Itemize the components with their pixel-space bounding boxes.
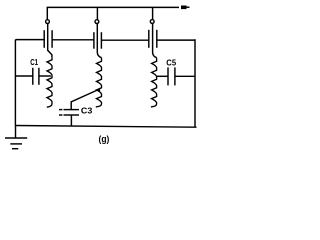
svg-text:(g): (g) [99, 134, 110, 144]
svg-text:C5: C5 [166, 57, 176, 67]
svg-text:C1: C1 [30, 57, 38, 67]
svg-text:C3: C3 [81, 106, 93, 116]
